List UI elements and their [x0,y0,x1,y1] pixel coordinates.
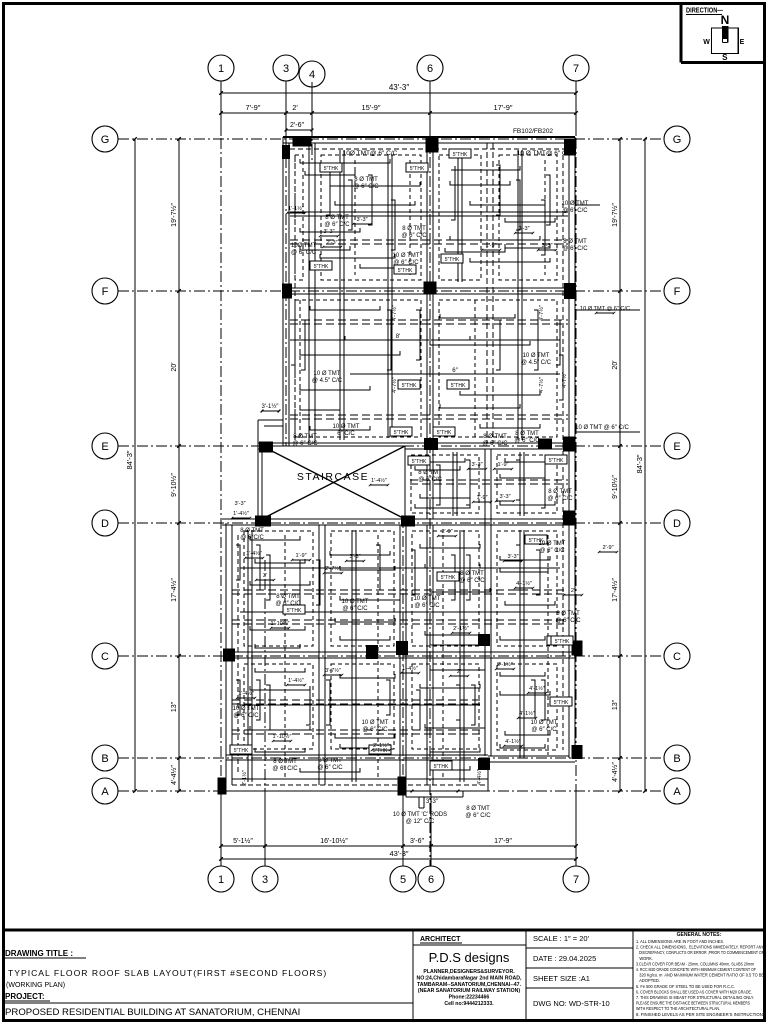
staircase [262,446,405,519]
svg-text:@ 6″ C/C: @ 6″ C/C [291,250,317,256]
svg-text:4′-4½″: 4′-4½″ [611,762,619,782]
svg-text:7: 7 [573,874,579,886]
small dimension labels [231,205,630,786]
svg-text:4′-7½″: 4′-7½″ [538,377,545,393]
distribution lines [240,212,560,705]
svg-text:16′-10½″: 16′-10½″ [320,837,348,845]
svg-text:1′-10½″: 1′-10½″ [273,733,292,740]
svg-text:@ 6″ C/C: @ 6″ C/C [233,713,259,719]
svg-text:TAMBARAM--SANATORIUM,CHENNAI--: TAMBARAM--SANATORIUM,CHENNAI--47. [417,982,522,988]
svg-text:S: S [722,53,728,62]
svg-text:10 Ø TMT: 10 Ø TMT [393,253,420,259]
svg-text:3′-3″: 3′-3″ [234,501,245,507]
svg-text:3′-3″: 3′-3″ [426,799,439,805]
svg-text:@ 6″ C/C: @ 6″ C/C [414,603,440,609]
svg-text:8 Ø TMT: 8 Ø TMT [325,215,349,221]
svg-text:2. CHECK ALL DIMENSIONS, ELEV: 2. CHECK ALL DIMENSIONS, ELEVATIONS IMME… [636,945,764,950]
svg-text:5"THK: 5"THK [234,748,249,754]
grid bubbles right [664,126,690,152]
svg-text:4. RCC M20 GRADE CONCRETE WITH: 4. RCC M20 GRADE CONCRETE WITH MINIMUM C… [636,967,756,972]
svg-text:8 Ø TMT: 8 Ø TMT [483,434,507,440]
svg-text:PROJECT:: PROJECT: [5,992,45,1001]
svg-text:5"THK: 5"THK [402,383,417,389]
svg-text:5"THK: 5"THK [441,575,456,581]
svg-text:ARCHITECT: ARCHITECT [420,936,461,943]
svg-text:GENERAL NOTES:: GENERAL NOTES: [677,932,722,938]
svg-text:10 Ø TMT: 10 Ø TMT [523,353,550,359]
svg-text:@ 4.5″ C/C: @ 4.5″ C/C [521,360,552,366]
svg-text:10 Ø TMT ‘C’ RODS: 10 Ø TMT ‘C’ RODS [393,812,447,818]
svg-text:6: 6 [427,63,433,75]
rebar bent bars [236,159,563,772]
svg-text:8 Ø TMT: 8 Ø TMT [556,611,580,617]
vertical grid lines [220,81,222,866]
svg-text:7′-9″: 7′-9″ [246,103,261,112]
svg-text:C: C [101,651,109,663]
svg-text:10 Ø TMT: 10 Ø TMT [414,596,441,602]
svg-text:5"THK: 5"THK [314,264,329,270]
svg-text:1. ALL DIMENSIONS ARE IN FOOT: 1. ALL DIMENSIONS ARE IN FOOT AND INCHES… [636,939,724,944]
svg-text:PROPOSED RESIDENTIAL BUILDING: PROPOSED RESIDENTIAL BUILDING AT SANATOR… [5,1007,300,1018]
svg-text:3′-3″: 3′-3″ [507,554,518,560]
svg-text:5"THK: 5"THK [412,459,427,465]
svg-text:8 Ø TMT: 8 Ø TMT [418,470,442,476]
svg-text:15′-9″: 15′-9″ [361,103,380,112]
svg-text:1′-9″: 1′-9″ [476,495,487,501]
svg-text:DATE : 29.04.2025: DATE : 29.04.2025 [533,954,596,963]
svg-text:1′-10½″: 1′-10½″ [271,620,290,627]
svg-text:5"THK: 5"THK [434,764,449,770]
svg-text:1: 1 [218,874,224,886]
svg-text:10 Ø TMT: 10 Ø TMT [362,720,389,726]
svg-text:5"THK: 5"THK [324,166,339,172]
svg-text:@ 6″ C/C: @ 6″ C/C [324,222,350,228]
svg-text:5"THK: 5"THK [549,458,564,464]
svg-text:19′-7½″: 19′-7½″ [170,203,178,227]
svg-text:P.D.S designs: P.D.S designs [429,950,510,965]
svg-text:10 Ø TMT: 10 Ø TMT [342,599,369,605]
svg-text:B: B [101,753,108,765]
svg-text:@ 4.5″ C/C: @ 4.5″ C/C [312,378,343,384]
svg-text:W: W [703,39,710,46]
svg-text:9′-10½″: 9′-10½″ [170,473,178,497]
svg-text:@ 12″ C/C: @ 12″ C/C [406,819,435,825]
svg-text:43′-3″: 43′-3″ [389,849,408,858]
svg-text:2′: 2′ [457,669,461,675]
svg-text:17′-9″: 17′-9″ [493,103,512,112]
svg-text:DRAWING TITLE :: DRAWING TITLE : [5,949,73,958]
svg-text:5"THK: 5"THK [437,430,452,436]
svg-text:SCALE : 1″ = 20′: SCALE : 1″ = 20′ [533,934,590,943]
svg-text:5"THK: 5"THK [453,152,468,158]
bottom dimension lines [219,793,578,866]
svg-text:3′-6″: 3′-6″ [410,838,424,845]
svg-text:@ 6″ C/C: @ 6″ C/C [272,766,298,772]
svg-text:6. COVER BLOCKS SHALL BE USED: 6. COVER BLOCKS SHALL BE USED AS COVER W… [636,989,752,994]
svg-text:@ 6″ C/C: @ 6″ C/C [317,765,343,771]
svg-text:@ 6″C/C: @ 6″C/C [418,477,442,483]
svg-text:1′-9″: 1′-9″ [485,243,496,249]
svg-text:E: E [673,441,680,453]
svg-text:3: 3 [283,63,289,75]
svg-text:3′-3″: 3′-3″ [471,462,482,468]
svg-text:2′-1½″: 2′-1½″ [497,661,513,668]
svg-text:5"THK: 5"THK [451,383,466,389]
svg-text:G: G [101,134,110,146]
svg-text:C: C [673,651,681,663]
svg-text:@ 6″ C/C: @ 6″ C/C [482,441,508,447]
interior beams [232,143,568,785]
direction box [681,4,765,63]
svg-text:10Ø TMT: 10Ø TMT [291,243,317,249]
svg-text:8 Ø TMT: 8 Ø TMT [466,806,490,812]
svg-text:20′: 20′ [171,362,178,372]
slab thickness tags [230,149,573,770]
svg-text:10 Ø TMT: 10 Ø TMT [333,424,360,430]
svg-text:7: 7 [573,63,579,75]
svg-text:A: A [101,786,109,798]
svg-text:4′-7½″: 4′-7½″ [391,305,398,321]
svg-text:3′-3″: 3′-3″ [356,217,367,223]
svg-text:3′-1½″: 3′-1½″ [262,403,280,410]
svg-text:3′-3″: 3′-3″ [349,554,360,560]
svg-text:8 Ø TMT: 8 Ø TMT [548,489,572,495]
svg-text:@ 6″ C/C: @ 6″ C/C [514,438,540,444]
svg-text:@ 6″C/C: @ 6″C/C [240,535,264,541]
top dimension lines [219,82,578,136]
svg-text:WORK.: WORK. [636,956,653,961]
svg-text:D: D [673,518,681,530]
svg-text:4: 4 [309,69,315,81]
svg-text:E: E [740,39,745,46]
svg-text:5"THK: 5"THK [287,608,302,614]
svg-text:10 Ø TMT: 10 Ø TMT [314,371,341,377]
svg-text:8 Ø TMT: 8 Ø TMT [273,759,297,765]
svg-text:D: D [101,518,109,530]
svg-text:10 Ø TMT@ 6″ C/C: 10 Ø TMT@ 6″ C/C [517,150,574,157]
svg-text:10 Ø TMT: 10 Ø TMT [531,720,558,726]
svg-text:3′-7½″: 3′-7½″ [325,667,341,674]
left dimension lines [125,137,181,793]
svg-text:@ 6″ C/C: @ 6″ C/C [401,233,427,239]
svg-text:19′-7½″: 19′-7½″ [611,203,619,227]
svg-text:@ 6″ C/C: @ 6″ C/C [531,727,557,733]
svg-text:@ 6″ C/C: @ 6″ C/C [362,727,388,733]
svg-text:5"THK: 5"THK [555,639,570,645]
svg-text:10 Ø TMT: 10 Ø TMT [562,201,589,207]
svg-text:10 Ø TMT: 10 Ø TMT [233,706,260,712]
svg-text:SHEET SIZE :A1: SHEET SIZE :A1 [533,974,590,983]
svg-text:43′-3″: 43′-3″ [389,83,410,92]
svg-text:3′: 3′ [263,573,267,579]
right dimension lines [611,137,647,793]
svg-text:17′-4½″: 17′-4½″ [611,578,619,602]
svg-text:4′-1½″: 4′-1½″ [529,685,545,692]
svg-text:@ 6″ C/C: @ 6″ C/C [562,208,588,214]
svg-text:4′-7½″: 4′-7½″ [561,372,568,388]
svg-text:1′-4½″: 1′-4½″ [238,690,254,697]
svg-text:@ 6″ C/C: @ 6″ C/C [275,601,301,607]
svg-text:2′-1½″: 2′-1½″ [453,625,469,632]
svg-text:4′-4½″: 4′-4½″ [476,769,483,785]
svg-text:NO:24,ChidambaraNagar 2nd MAI: NO:24,ChidambaraNagar 2nd MAIN ROAD, [417,975,522,981]
svg-text:17′-4½″: 17′-4½″ [170,578,178,602]
svg-text:3′-3″: 3′-3″ [518,226,529,232]
svg-text:1′-1½″: 1′-1½″ [288,205,304,212]
svg-text:B: B [673,753,680,765]
svg-text:20′: 20′ [612,360,619,370]
svg-text:4′-1½″: 4′-1½″ [516,580,532,587]
svg-text:2′: 2′ [571,588,575,594]
svg-text:E: E [101,441,108,453]
svg-text:2′-9″: 2′-9″ [441,529,452,535]
svg-text:6″ C/C: 6″ C/C [337,431,355,437]
svg-text:4′-1½″: 4′-1½″ [519,710,535,717]
svg-text:DISCREPANCY, CONFLICTS OR ERRO: DISCREPANCY, CONFLICTS OR ERROR ,PRIOR T… [636,950,764,955]
svg-text:2′: 2′ [292,103,298,112]
grid bubbles left [92,126,118,152]
svg-text:5"THK: 5"THK [373,748,388,754]
svg-text:10 Ø TMT @ 6″ C/C: 10 Ø TMT @ 6″ C/C [575,425,629,431]
svg-text:N: N [721,13,730,27]
svg-text:8. FINISHED LEVELS AS PER SITE: 8. FINISHED LEVELS AS PER SITE ENGINEER’… [636,1012,764,1017]
svg-text:84′-3″: 84′-3″ [125,450,134,469]
svg-text:1′-9″: 1′-9″ [497,462,508,468]
svg-text:8 Ø TMT: 8 Ø TMT [460,571,484,577]
svg-text:FB102/FB202: FB102/FB202 [513,128,553,135]
svg-text:10 Ø TMT @ 6″ C/C: 10 Ø TMT @ 6″ C/C [580,306,630,312]
svg-text:F: F [674,286,681,298]
svg-text:1′-4½″: 1′-4½″ [246,550,262,557]
svg-text:(WORKING PLAN): (WORKING PLAN) [6,982,65,989]
svg-text:1′-4½″: 1′-4½″ [402,665,418,672]
stair flight below [398,777,464,809]
svg-text:320 Kg/cu. m AND MAXIMUM WATE: 320 Kg/cu. m AND MAXIMUM WATER CEMENT RA… [636,973,764,978]
svg-text:8 Ø TMT: 8 Ø TMT [318,758,342,764]
svg-text:TYPICAL FLOOR ROOF SLAB LAYOU: TYPICAL FLOOR ROOF SLAB LAYOUT(FIRST #SE… [8,968,327,978]
svg-text:@ 6″ C/C: @ 6″ C/C [465,813,491,819]
svg-text:4′-4½″: 4′-4½″ [170,765,178,785]
svg-text:1′-9″: 1′-9″ [295,553,306,559]
svg-text:F: F [102,286,109,298]
svg-text:2′-1½″: 2′-1½″ [373,742,389,749]
svg-text:4′-7½″: 4′-7½″ [538,305,545,321]
svg-text:5"THK: 5"THK [445,257,460,263]
svg-text:WITH RESPECT TO THE ARCHITECTU: WITH RESPECT TO THE ARCHITECTURAL PLAN. [636,1006,720,1011]
svg-text:DWG NO: WD-STR-10: DWG NO: WD-STR-10 [533,999,610,1008]
svg-text:@ 6″ C/C: @ 6″ C/C [547,496,573,502]
svg-text:1: 1 [218,63,224,75]
svg-text:2′-1½″: 2′-1½″ [241,770,248,786]
svg-text:Cell no:9444212333.: Cell no:9444212333. [444,1001,494,1007]
svg-text:8 Ø TMT: 8 Ø TMT [276,594,300,600]
svg-text:STAIRCASE: STAIRCASE [297,471,369,483]
svg-text:@ 6″ C/C: @ 6″ C/C [353,184,379,190]
svg-text:5"THK: 5"THK [394,430,409,436]
svg-text:PLEASE ENSURE THE DISTANCE BET: PLEASE ENSURE THE DISTANCE BETWEEN STRUC… [636,1001,750,1006]
svg-text:8 Ø TMT: 8 Ø TMT [563,239,587,245]
svg-text:3′-3″: 3′-3″ [541,243,552,249]
svg-text:Phone:22234466: Phone:22234466 [449,995,490,1001]
svg-text:1′-4½″: 1′-4½″ [371,477,387,484]
svg-text:4′-1½″: 4′-1½″ [505,738,521,745]
svg-text:8 Ø TMT: 8 Ø TMT [515,431,539,437]
svg-text:3′-3″: 3′-3″ [323,229,334,235]
svg-text:A: A [673,786,681,798]
svg-text:1′-4½″: 1′-4½″ [288,677,304,684]
svg-text:6″: 6″ [452,368,458,374]
svg-text:8 Ø TMT: 8 Ø TMT [354,177,378,183]
grid bubbles top [208,55,234,81]
svg-text:2′-9″: 2′-9″ [602,545,613,551]
svg-text:3: 3 [262,874,268,886]
svg-text:7. THIS DRAWING IS MEANT FOR S: 7. THIS DRAWING IS MEANT FOR STRUCTURAL … [636,995,754,1000]
svg-text:8 Ø TMT: 8 Ø TMT [293,434,317,440]
plan outer walls [222,137,575,791]
svg-text:@ 6″ C/C: @ 6″ C/C [555,618,581,624]
svg-text:@ 6″ C/C: @ 6″ C/C [292,441,318,447]
svg-text:@ 6″ C/C: @ 6″ C/C [342,606,368,612]
columns [218,138,583,795]
svg-text:13″: 13″ [612,699,619,710]
svg-text:10Ø TMT@ 6″ C/C: 10Ø TMT@ 6″ C/C [343,150,398,157]
svg-text:PLANNER,DESIGNERS&SURVEYOR.: PLANNER,DESIGNERS&SURVEYOR. [423,969,515,975]
svg-text:13″: 13″ [171,701,178,712]
horizontal grid lines [118,138,664,140]
svg-text:G: G [673,134,682,146]
svg-text:3′-3″: 3′-3″ [499,494,510,500]
svg-text:5"THK: 5"THK [554,700,569,706]
grid bubbles bottom [208,866,234,892]
svg-text:17′-9″: 17′-9″ [494,838,512,845]
svg-text:2′-6″: 2′-6″ [290,122,304,129]
svg-text:1′-4½″: 1′-4½″ [233,510,249,517]
svg-text:9′-10½″: 9′-10½″ [611,475,619,499]
svg-text:@ 6″ C/C: @ 6″ C/C [539,548,565,554]
svg-text:2′-3″: 2′-3″ [326,240,337,246]
svg-text:3.CLEAR COVER FOR BEAM - 25mm,: 3.CLEAR COVER FOR BEAM - 25mm, COLUMNS 4… [636,961,754,966]
svg-text:84′-3″: 84′-3″ [635,454,644,473]
svg-text:@ 6″ C/C: @ 6″ C/C [562,246,588,252]
rebar labels [233,150,640,825]
svg-text:8 Ø TMT: 8 Ø TMT [402,226,426,232]
svg-text:10 Ø TMT: 10 Ø TMT [539,541,566,547]
svg-text:ADOPTED.: ADOPTED. [636,978,660,983]
svg-text:5′-1½″: 5′-1½″ [233,837,253,845]
svg-text:5: 5 [400,874,406,886]
title block [3,930,765,1020]
svg-text:4′-7½″: 4′-7½″ [391,377,398,393]
svg-text:5"THK: 5"THK [398,268,413,274]
svg-text:8 Ø TMT: 8 Ø TMT [240,528,264,534]
svg-text:(NEAR SANATORIUM RAILWAY ST: (NEAR SANATORIUM RAILWAY STATION) [418,988,520,994]
svg-text:5. Fe 500 GRADE OF STEEL TO BE: 5. Fe 500 GRADE OF STEEL TO BE USED FOR … [636,984,735,989]
svg-text:@ 6″ C/C: @ 6″ C/C [459,578,485,584]
svg-text:@ 6″ C/C: @ 6″ C/C [393,260,419,266]
svg-text:5"THK: 5"THK [410,166,425,172]
svg-text:6: 6 [428,874,434,886]
svg-text:DIRECTION—: DIRECTION— [686,6,723,15]
svg-text:2′-7½″: 2′-7½″ [325,565,341,572]
